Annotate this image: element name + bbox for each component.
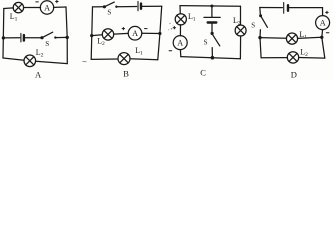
label D (circuit name): [291, 70, 297, 80]
wire to lamp L2 (B): [92, 34, 103, 37]
polarity plus of ammeter (C): [173, 27, 176, 29]
svg-text:2: 2: [102, 41, 105, 47]
label L1 (A): [10, 12, 18, 23]
switch S (D): [259, 14, 267, 27]
top-left wire of B: [93, 6, 104, 8]
wire ammeter to bottom rail (C): [179, 50, 181, 57]
lamp L2 (B): [102, 29, 113, 40]
node right rail / middle branch (A): [66, 36, 69, 39]
svg-text:S: S: [45, 40, 49, 48]
wire ammeter to right rail (B): [142, 32, 160, 34]
lamp L2 (C): [235, 25, 246, 36]
battery stem top (C): [211, 6, 213, 17]
node right rail / middle branch (B): [158, 32, 161, 35]
label S (B): [107, 9, 111, 17]
battery (D): [284, 3, 288, 14]
svg-text:1: 1: [140, 50, 143, 56]
polarity plus of ammeter (B): [122, 27, 125, 29]
label L2 (D): [300, 47, 308, 58]
label L2 (B): [97, 36, 105, 47]
svg-text:S: S: [251, 22, 255, 30]
bottom-right wire of B: [130, 58, 158, 61]
svg-text:A: A: [320, 19, 326, 28]
wire to battery (A): [3, 37, 19, 39]
svg-text:1: 1: [15, 17, 18, 23]
svg-text:S: S: [204, 38, 208, 46]
svg-text:A: A: [132, 29, 138, 38]
label S (A): [45, 40, 49, 48]
svg-text:2: 2: [41, 53, 44, 59]
right rail wire of B: [158, 6, 162, 59]
bottom-left wire of A: [3, 58, 24, 60]
lamp L2 (D): [287, 52, 298, 63]
top-left wire of D: [260, 7, 283, 9]
polarity minus of ammeter A: [36, 1, 39, 3]
ammeter A (circuit B): [128, 26, 142, 40]
bottom-right wire of A: [36, 61, 68, 63]
wire top-left down to lamp L1 (C): [179, 6, 181, 14]
label L1 (D): [299, 30, 307, 41]
left rail wire of A: [2, 9, 5, 59]
wire top-right of A: [54, 6, 67, 8]
left rail wire of D (node to bottom): [260, 38, 261, 58]
label A (circuit name): [35, 70, 42, 80]
svg-text:1: 1: [193, 17, 196, 23]
svg-text:A: A: [35, 70, 42, 80]
top rail wire of C: [180, 5, 241, 8]
ammeter A (circuit D): [316, 16, 330, 30]
switch S (B): [103, 2, 118, 8]
wire top-right down to lamp L2 (C): [240, 6, 242, 25]
wire top-left down to switch (D): [259, 8, 262, 16]
node top rail / battery stem (C): [210, 5, 213, 8]
battery (C): [204, 17, 220, 22]
label L2 (A): [36, 48, 44, 59]
wire L2 to ammeter (B): [114, 32, 129, 35]
polarity minus of ammeter (C): [169, 50, 172, 52]
label S (C): [204, 38, 208, 46]
node left rail / middle branch (B): [90, 34, 93, 37]
wire battery to right rail (B): [142, 5, 161, 7]
node bottom rail / switch branch (C): [211, 56, 215, 60]
label L1 (C): [188, 12, 196, 23]
lamp L2 (A): [24, 55, 36, 67]
wire battery to switch (A): [25, 37, 41, 39]
switch S (C): [211, 32, 220, 46]
wire top-right down to ammeter (D): [322, 8, 324, 16]
lamp L1 (C): [175, 14, 186, 25]
wire L2 to bottom rail (C): [239, 36, 241, 59]
right rail wire of A: [66, 7, 67, 64]
wire switch to battery (B): [116, 6, 136, 8]
svg-text:A: A: [44, 3, 50, 12]
wire lamp L1 to right node (D): [298, 37, 322, 38]
ammeter A (circuit C): [173, 36, 187, 50]
wire switch to bottom rail (C): [211, 48, 213, 58]
polarity minus of ammeter (B): [145, 28, 148, 30]
svg-text:C: C: [200, 67, 206, 77]
battery (A): [21, 33, 24, 42]
svg-text:A: A: [177, 39, 183, 48]
lamp L1 (B): [118, 53, 130, 65]
lamp L1 (A): [13, 2, 23, 12]
top-right wire of D: [289, 7, 322, 9]
wire switch to middle node (D): [259, 30, 261, 38]
label L2 (C): [233, 16, 241, 27]
label C (circuit name): [200, 67, 206, 77]
right rail wire of D: [322, 30, 325, 58]
bottom-left wire of D: [261, 57, 287, 59]
left rail wire of B: [91, 7, 92, 60]
lamp L1 (D): [286, 33, 297, 44]
polarity minus of ammeter (D): [326, 32, 329, 34]
wire top-left of A: [4, 7, 14, 10]
bottom rail wire of C: [181, 57, 241, 59]
node at left rail / battery branch (A): [2, 36, 5, 39]
bottom-left wire of B: [91, 58, 118, 60]
wire between L1 and ammeter (A): [24, 7, 41, 9]
switch S (A): [40, 32, 56, 39]
node left rail / lamp branch (D): [258, 36, 261, 39]
bottom-right wire of D: [299, 57, 325, 60]
label B (circuit name): [123, 69, 129, 79]
ammeter A (circuit A): [40, 1, 53, 14]
wire switch to right rail (A): [55, 36, 67, 38]
polarity plus of ammeter A: [56, 0, 59, 2]
wire node to lamp L1 (D): [260, 37, 287, 40]
polarity plus of ammeter (D): [326, 11, 329, 13]
svg-text:B: B: [123, 69, 129, 79]
svg-text:S: S: [107, 9, 111, 17]
node right rail / lamp branch (D): [320, 36, 323, 39]
svg-text:D: D: [291, 70, 297, 80]
battery (B): [138, 1, 141, 10]
wire L1 to ammeter (C): [179, 25, 181, 36]
wire battery to switch (C): [211, 23, 213, 33]
label L1 (B): [135, 46, 143, 57]
label S (D): [251, 22, 255, 30]
